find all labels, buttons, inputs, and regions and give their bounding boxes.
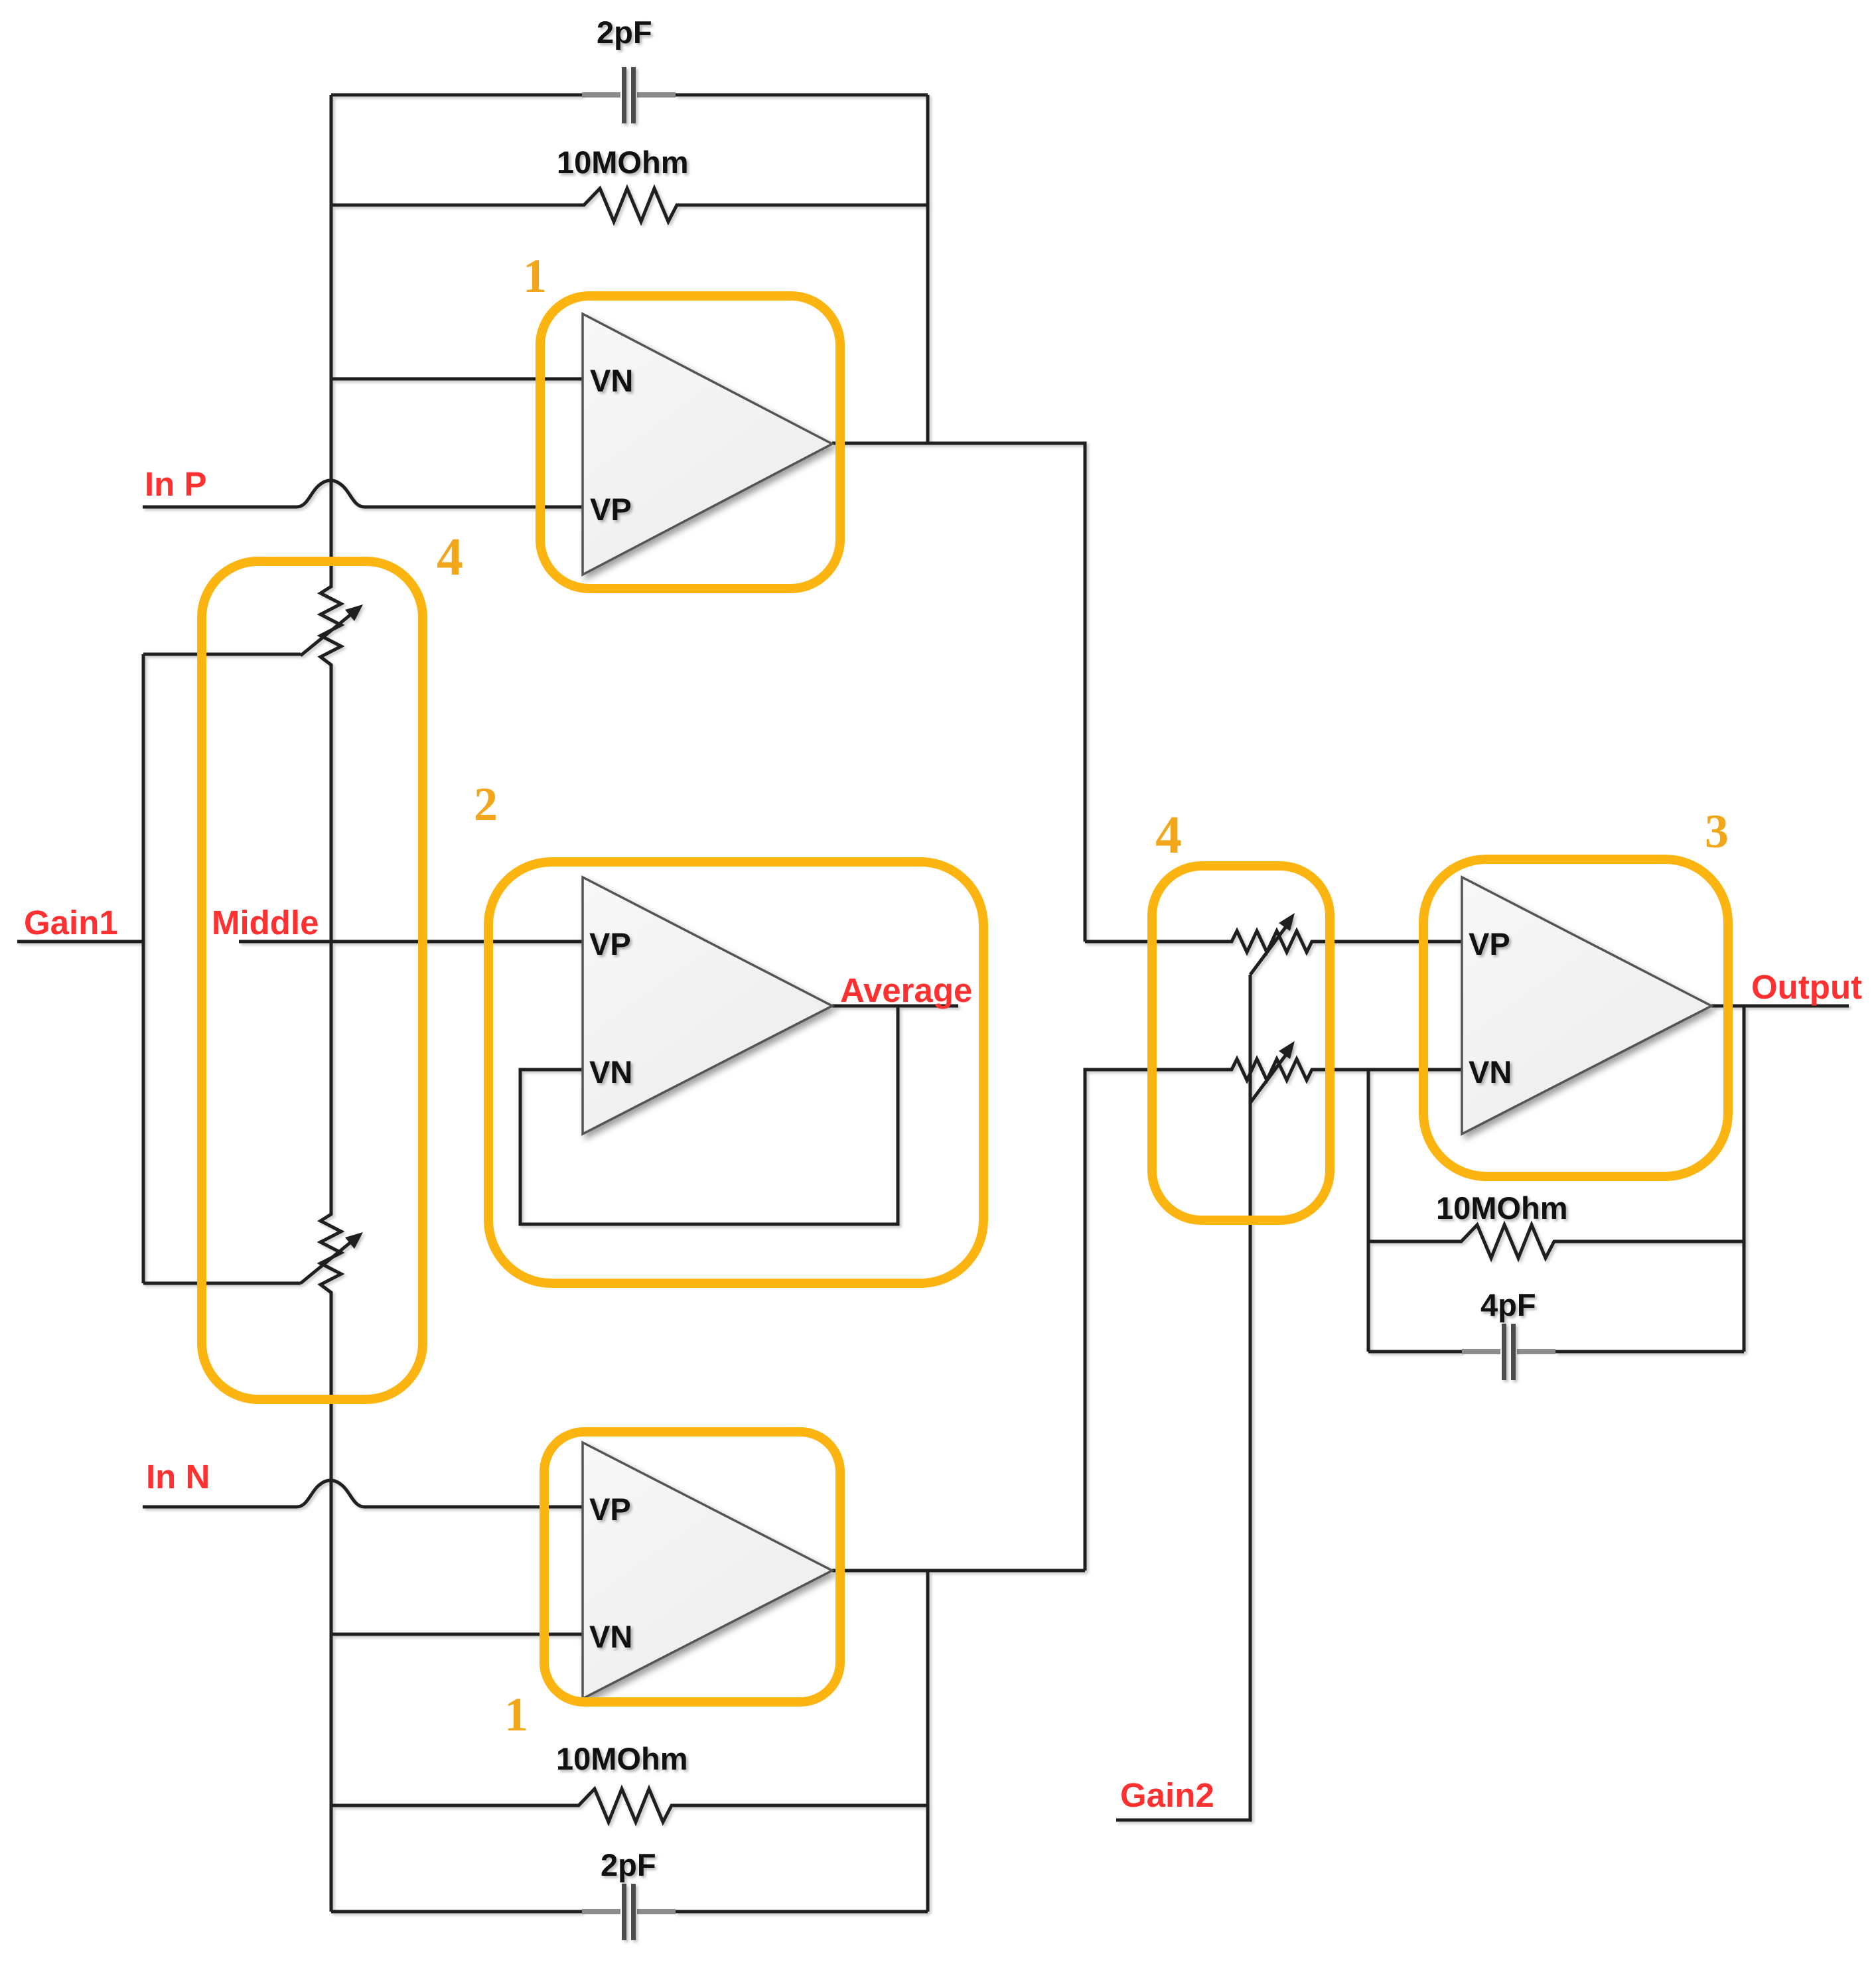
svg-text:VN: VN: [589, 1054, 632, 1089]
svg-text:4: 4: [437, 528, 463, 587]
svg-text:2: 2: [474, 778, 498, 831]
svg-text:VP: VP: [1469, 926, 1510, 961]
svg-text:4: 4: [1155, 806, 1182, 865]
svg-text:2pF: 2pF: [601, 1847, 656, 1882]
svg-text:Gain1: Gain1: [24, 904, 118, 942]
svg-text:1: 1: [523, 249, 547, 303]
svg-text:10MOhm: 10MOhm: [1436, 1190, 1568, 1226]
svg-text:Average: Average: [840, 971, 972, 1009]
svg-text:10MOhm: 10MOhm: [556, 1741, 688, 1776]
svg-text:VN: VN: [1469, 1054, 1512, 1089]
svg-text:10MOhm: 10MOhm: [557, 145, 689, 180]
svg-text:VN: VN: [589, 1619, 632, 1654]
svg-text:2pF: 2pF: [597, 15, 652, 50]
svg-text:Gain2: Gain2: [1120, 1776, 1214, 1814]
svg-text:In P: In P: [145, 465, 207, 503]
svg-text:VP: VP: [590, 492, 632, 527]
svg-text:Output: Output: [1751, 968, 1862, 1006]
svg-text:3: 3: [1705, 805, 1729, 858]
svg-text:1: 1: [504, 1688, 528, 1741]
svg-text:4pF: 4pF: [1480, 1287, 1536, 1322]
svg-text:VN: VN: [590, 363, 633, 398]
svg-text:VP: VP: [589, 926, 631, 961]
svg-text:VP: VP: [589, 1492, 631, 1527]
svg-text:Middle: Middle: [212, 904, 319, 942]
svg-text:In N: In N: [146, 1458, 210, 1496]
